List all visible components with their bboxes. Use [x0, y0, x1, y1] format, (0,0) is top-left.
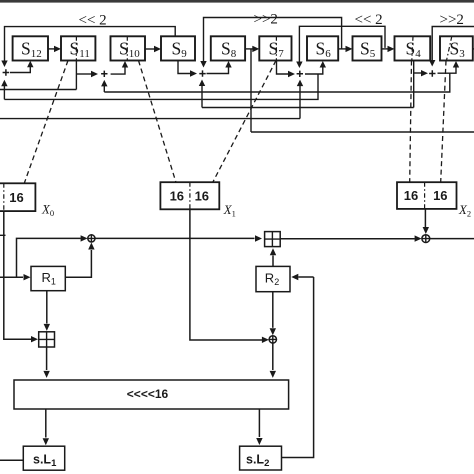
- svg-text:<<<<16: <<<<16: [127, 387, 169, 401]
- svg-text:X0: X0: [41, 202, 54, 218]
- svg-text:16: 16: [404, 188, 418, 203]
- svg-text:<< 2: << 2: [355, 12, 383, 28]
- svg-text:<< 2: << 2: [79, 13, 107, 29]
- svg-text:X2: X2: [458, 203, 471, 219]
- svg-text:16: 16: [170, 188, 184, 203]
- svg-text:>>2: >>2: [440, 12, 464, 28]
- svg-text:16: 16: [195, 188, 209, 203]
- svg-text:X1: X1: [223, 203, 236, 219]
- svg-text:16: 16: [9, 190, 23, 205]
- svg-text:>>2: >>2: [254, 12, 278, 28]
- svg-text:16: 16: [433, 188, 447, 203]
